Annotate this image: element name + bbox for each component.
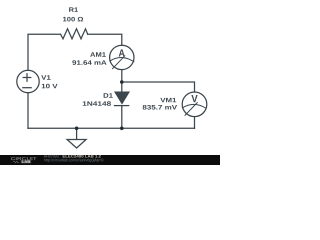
footer black bar (0, 155, 220, 165)
label V1 (41, 75, 50, 79)
label 10 V (42, 84, 58, 89)
footer line 1 annotation gray part (44, 155, 61, 158)
voltmeter VM1 circle (182, 92, 207, 117)
V1 minus sign (23, 87, 31, 89)
voltmeter needle (185, 103, 197, 116)
wire middle rail to voltmeter (122, 82, 195, 92)
ammeter letter A (119, 49, 125, 56)
diode D1 triangle (115, 92, 129, 104)
V1 plus sign (23, 74, 31, 82)
label 91.64 mA (72, 60, 106, 65)
resistor R1 (61, 29, 88, 39)
ground triangle (67, 140, 86, 149)
junction dot diode-bottom-rail (120, 127, 124, 131)
diode D1 bottom wire (121, 106, 123, 129)
wire ammeter bottom to node (121, 70, 123, 82)
footer line 2 url (44, 159, 103, 163)
diode D1 cathode bar (115, 105, 129, 107)
ammeter needle (113, 56, 125, 69)
wire V1 bottom (27, 93, 29, 129)
CircuitLab logo LAB text (22, 160, 30, 162)
label AM1 (90, 52, 106, 56)
voltmeter meter arc (183, 104, 206, 108)
label 835.7 mV (143, 105, 177, 110)
wire resistor to ammeter corner (88, 34, 122, 45)
label 100 ohm (63, 17, 83, 22)
ground stub (76, 128, 78, 139)
voltage source V1 circle (17, 70, 39, 92)
label 1N4148 (83, 101, 111, 106)
label R1 (69, 7, 78, 11)
label VM1 (160, 98, 176, 102)
label D1 (104, 93, 113, 97)
footer line 1 annotation bright part (63, 155, 101, 158)
voltmeter letter V (191, 95, 197, 102)
CircuitLab logo LAB plate (21, 160, 31, 163)
CircuitLab logo wordmark CIRCUIT (11, 157, 37, 160)
ammeter meter arc (110, 57, 134, 61)
diode D1 anode wire (121, 82, 123, 92)
wire bottom rail (28, 127, 195, 129)
junction dot ground-rail (75, 127, 79, 131)
node junction dot ammeter-diode-rail (120, 80, 124, 84)
CircuitLab logo squiggle (13, 161, 19, 163)
wire voltmeter bottom (194, 117, 196, 129)
wire V1 top to top rail (28, 34, 61, 70)
ammeter AM1 circle (110, 45, 134, 69)
